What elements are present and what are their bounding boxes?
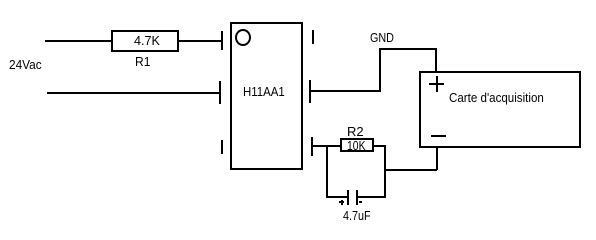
resistor R2: [340, 138, 374, 152]
wire: [379, 48, 437, 50]
label R1: [135, 55, 150, 68]
pin 3: [221, 140, 223, 154]
label R2: [347, 125, 364, 138]
pin 2: [219, 81, 221, 104]
polarity -: [359, 201, 362, 203]
node 24Vac: [9, 58, 42, 71]
terminal +: [429, 83, 444, 85]
wire: [384, 169, 437, 171]
value 10K: [347, 139, 366, 152]
pin 6: [312, 30, 314, 44]
wire: [45, 40, 111, 42]
pin 4: [311, 137, 313, 156]
wire: [374, 145, 386, 147]
wire junction left branch: [326, 145, 328, 198]
wire: [312, 145, 340, 147]
pin 1: [221, 31, 223, 50]
label Carte d'acquisition: [449, 91, 544, 104]
wire: [358, 196, 386, 198]
block Carte d'acquisition: [419, 71, 581, 148]
wire: [326, 196, 347, 198]
value 4.7uF: [343, 209, 371, 222]
optocoupler U1 H11AA1: [230, 22, 303, 170]
wire junction right branch: [384, 145, 386, 198]
label H11AA1: [243, 85, 285, 98]
value 4.7K: [134, 34, 160, 47]
net GND: [370, 31, 394, 44]
wire: [47, 92, 220, 94]
capacitor C1 plate right: [356, 190, 358, 205]
wire: [310, 90, 381, 92]
resistor R1: [111, 30, 179, 52]
pin 5: [309, 80, 311, 103]
pin 1 indicator circle: [235, 29, 251, 46]
terminal -: [431, 135, 446, 137]
polarity +: [339, 201, 344, 203]
wire: [379, 48, 381, 92]
wire: [179, 40, 222, 42]
wire: [435, 48, 437, 73]
wire: [436, 148, 438, 170]
capacitor C1 plate left: [347, 190, 349, 205]
